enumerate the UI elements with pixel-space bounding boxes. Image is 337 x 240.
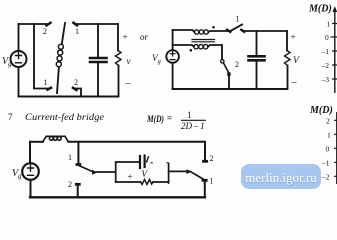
svg-text:1: 1 [75, 27, 79, 36]
svg-text:–3: –3 [321, 75, 330, 84]
node: top-right contact 1 [74, 23, 78, 26]
svg-text:merlin.igor.ru: merlin.igor.ru [245, 170, 317, 185]
capacitor C (circuit 1) [97, 24, 99, 57]
svg-text:1: 1 [44, 78, 48, 87]
wire: bottom-right contact down [76, 89, 81, 97]
svg-text:v: v [127, 56, 131, 66]
capacitor C (bridge) [139, 156, 141, 168]
load resistor / output V (circuit 1) [117, 24, 119, 51]
svg-text:M(D): M(D) [308, 4, 332, 15]
wire: circuit2 source top vertical [172, 30, 174, 50]
node: polarity dot (secondary) [190, 49, 193, 52]
svg-text:–2: –2 [321, 173, 330, 182]
svg-text:0: 0 [326, 145, 330, 154]
inductor L (bridge input) [43, 136, 69, 142]
load box left side [116, 162, 139, 182]
contact 1 (bridge bottom-right) [203, 179, 206, 182]
svg-text:Vg: Vg [12, 168, 22, 180]
svg-text:1: 1 [210, 177, 214, 186]
svg-text:2: 2 [43, 27, 47, 36]
svg-text:V: V [293, 56, 300, 66]
svg-text:Current-fed bridge: Current-fed bridge [25, 112, 104, 123]
svg-text:2: 2 [210, 154, 214, 163]
svg-text:+: + [123, 32, 128, 42]
svg-text:2: 2 [68, 180, 72, 189]
voltage source Vg (circuit 2) [166, 50, 179, 63]
svg-text:2: 2 [235, 60, 239, 69]
wire: circuit1 bottom rail [19, 96, 119, 98]
wire: circuit2 bottom rail [173, 88, 287, 90]
load box bottom edge + resistor R (bridge) [116, 181, 141, 183]
svg-text:=: = [167, 113, 172, 123]
svg-text:1: 1 [68, 153, 72, 162]
wire: bridge bottom rail [30, 196, 205, 198]
node: top-left contact 2 [47, 23, 51, 26]
wire: blade to load box (left) [97, 171, 116, 173]
load box right side [168, 164, 170, 184]
axis: bottom M(D) graph [334, 112, 337, 184]
switch 1 (circuit 2) [227, 30, 230, 32]
svg-text:2D – 1: 2D – 1 [181, 121, 205, 131]
voltage source Vg (circuit 1) [11, 51, 27, 67]
wire: circuit2 top rail to primary [173, 30, 195, 32]
wire: box to right switch blade [169, 170, 187, 172]
switch blade: bridge right [186, 169, 192, 174]
svg-text:or: or [140, 32, 149, 42]
transformer core [192, 40, 215, 42]
svg-text:+: + [291, 32, 296, 42]
svg-text:V: V [142, 169, 149, 179]
axis: top M(D) graph [331, 8, 337, 94]
wire: circuit1 inner branch to bottom-left contact [34, 24, 48, 89]
wire: circuit2 source bottom vertical [172, 63, 174, 89]
svg-text:Vg: Vg [152, 53, 162, 65]
watermark merlin.igor.ru [241, 164, 321, 189]
inductor: primary winding (circuit 2) [194, 30, 198, 34]
svg-text:2: 2 [326, 117, 330, 126]
svg-text:M(D): M(D) [146, 114, 164, 124]
svg-text:2: 2 [74, 78, 78, 87]
capacitor C (circuit 2) [256, 31, 258, 55]
switch 2 (circuit 2) [221, 60, 224, 63]
wire: bridge top rail right [68, 141, 205, 143]
inductor: secondary winding (circuit 2) [194, 45, 198, 49]
wire: bridge right vertical top, contact 2 [204, 142, 206, 160]
svg-text:–1: –1 [321, 47, 330, 56]
node: polarity dot (primary) [212, 26, 215, 29]
switch blade: bridge left [79, 166, 94, 173]
wire: circuit1 top rail right segment [76, 23, 118, 25]
wire: circuit2 secondary left lead [173, 45, 194, 47]
wire: bridge top rail left [30, 141, 43, 143]
wire: bridge left vertical [29, 142, 31, 163]
wire: circuit1 top rail left segment [19, 23, 49, 25]
svg-text:–1: –1 [321, 159, 330, 168]
svg-text:0: 0 [325, 33, 329, 42]
node: bottom-left contact 1 [48, 88, 52, 90]
svg-text:+: + [128, 172, 133, 182]
wire: circuit2 top rail right [244, 30, 287, 32]
switch blade with inductor (circuit 1) [62, 23, 65, 44]
faded box top edge specks [151, 162, 168, 164]
load resistor / output V (circuit 2) [286, 31, 288, 51]
svg-text:1: 1 [327, 20, 331, 29]
voltage source Vg (bridge) [22, 163, 39, 180]
contact 2 (bridge bottom-left) [76, 183, 79, 186]
svg-text:1: 1 [327, 131, 331, 140]
wire: circuit1 left vertical (source branch) [18, 24, 20, 51]
svg-text:M(D): M(D) [309, 105, 333, 116]
switch: bridge left, top contact 1 [77, 142, 79, 163]
node: bottom-right contact 2 [73, 88, 77, 90]
svg-text:1: 1 [236, 15, 240, 24]
svg-text:1: 1 [187, 110, 192, 120]
svg-text:7: 7 [8, 112, 13, 122]
svg-text:–2: –2 [321, 61, 330, 70]
svg-text:–: – [125, 78, 132, 89]
svg-text:–: – [291, 77, 298, 88]
